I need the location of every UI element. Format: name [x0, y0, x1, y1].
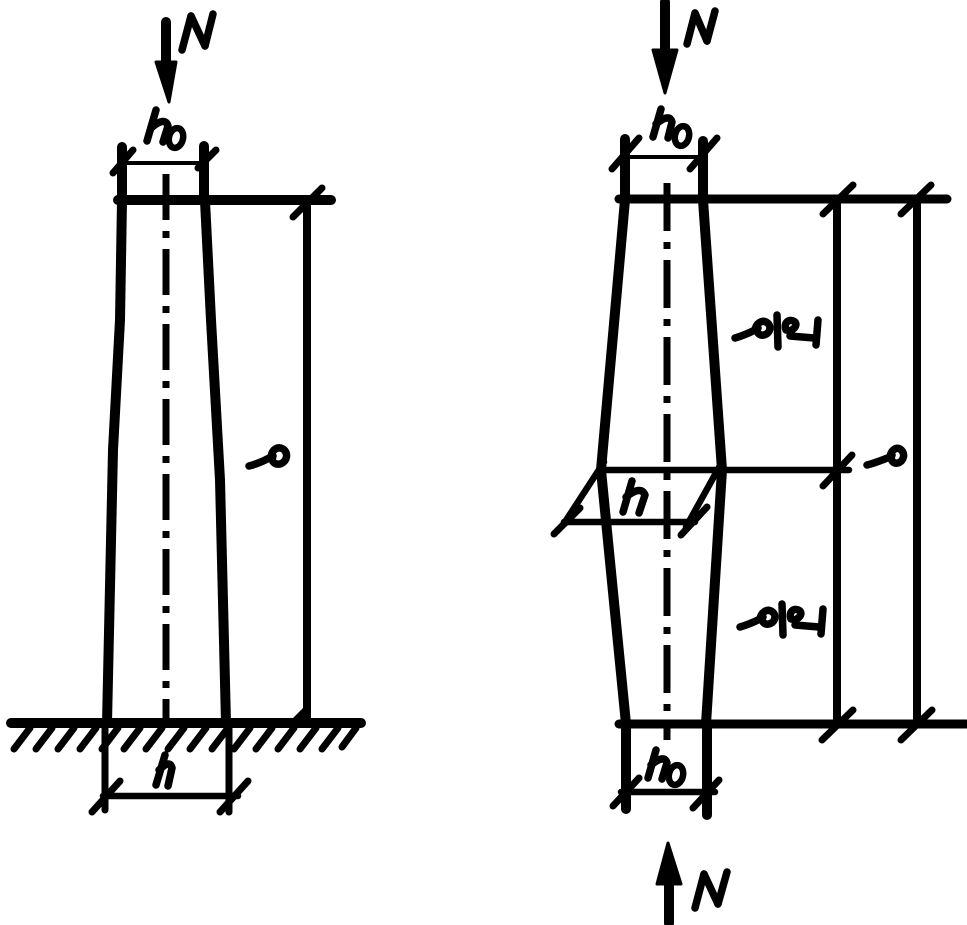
dimension line h0 (left, top of cap): [120, 161, 206, 165]
tick X left of h dim: [92, 781, 120, 812]
top horizontal line (column top): [118, 195, 331, 205]
label h0 (top left): [147, 110, 185, 149]
label l (rotated script ell, left): [249, 448, 287, 466]
label h (right mid): [623, 481, 645, 513]
bottom cap right side: [702, 724, 712, 815]
ground hatching: [14, 728, 356, 749]
label h0 (bottom right): [648, 750, 685, 786]
right extension below ground: [226, 723, 233, 812]
label l/2 (upper): [735, 315, 818, 347]
label l (right): [867, 448, 904, 465]
cap left side: [117, 147, 127, 201]
slanted extension left (h dim): [563, 462, 604, 525]
tick X right of h dim: [220, 781, 248, 812]
dimension line h0 (right top): [622, 155, 706, 159]
top horizontal line (right fig): [619, 195, 947, 204]
vertical dimension line l (left): [303, 201, 311, 722]
slanted extension right (h dim): [686, 462, 722, 527]
tick right of right h0 dim: [690, 138, 717, 169]
tick X left of bottom h0 dim: [613, 778, 639, 806]
centerline (right column): [664, 183, 671, 740]
tick right of h0 dim: [198, 150, 216, 168]
label h0 (top right): [653, 109, 691, 147]
dimension line h (bottom left): [103, 793, 238, 800]
tick X right of bottom h0 dim: [693, 780, 719, 808]
first vertical dimension line l/2: [833, 200, 841, 723]
tick on top line at second dim: [901, 185, 931, 214]
tick X at right end of mid line: [823, 455, 852, 486]
cap right side: [199, 146, 209, 201]
force arrow N (bottom, upward): [657, 843, 681, 923]
column left edge (right fig, bulged): [601, 200, 626, 724]
tick X left of right h dim: [554, 508, 580, 534]
column right edge: [205, 201, 226, 723]
label h (bottom left): [156, 755, 172, 786]
cap right side (right fig): [698, 141, 708, 200]
label N (top right): [687, 11, 715, 44]
mid horizontal line (right fig): [599, 467, 849, 474]
tick on bottom line at first dim: [822, 710, 853, 740]
bottom horizontal line (right fig): [619, 720, 966, 729]
cap left side (right fig): [620, 139, 630, 200]
centerline (left column): [163, 174, 170, 727]
ground line: [11, 718, 361, 728]
dimension line h0 (bottom right): [621, 789, 715, 796]
dimension line h (right mid): [564, 519, 695, 526]
tick on top line at first dim: [823, 185, 853, 214]
column left edge: [107, 201, 122, 723]
force arrow N (top right): [653, 2, 677, 93]
tick at bottom of l dim line: [293, 710, 306, 723]
second vertical dimension line l: [913, 200, 921, 723]
label N (bottom): [695, 872, 727, 908]
left extension below ground: [102, 723, 109, 810]
label l/2 (lower): [740, 604, 823, 635]
force arrow N (top left): [156, 22, 176, 102]
bottom cap left side: [621, 724, 631, 809]
column right edge (right fig, bulged): [703, 200, 722, 724]
tick left of right h0 dim: [612, 138, 639, 169]
tick left of h0 dim: [113, 150, 133, 173]
label N (top left): [182, 14, 213, 50]
tick X right of right h dim: [681, 507, 707, 535]
tick on bottom line at second dim: [901, 710, 932, 740]
tick at right end of top line: [293, 188, 322, 217]
